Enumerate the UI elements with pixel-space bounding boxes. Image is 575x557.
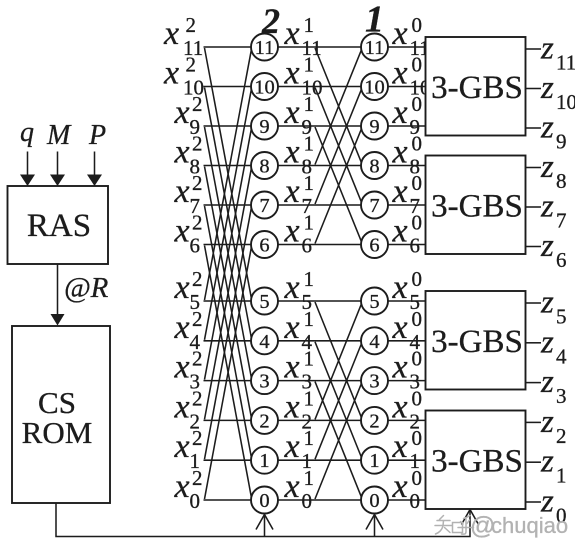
wire x2_0 to stage-2 node 6 (cross)	[205, 248, 252, 499]
svg-text:P: P	[88, 120, 106, 151]
wire x2_9 to stage-2 node 3 (cross)	[205, 127, 252, 377]
wire stage-1 node 2 to 3-GBS input	[388, 419, 426, 421]
svg-text:1: 1	[304, 426, 315, 450]
svg-text:1: 1	[304, 132, 315, 156]
wire x2_3 input to stage-2 node 3	[204, 380, 252, 382]
svg-text:2: 2	[192, 171, 203, 195]
stage-2 node 7	[251, 192, 278, 219]
svg-text:chuqiao: chuqiao	[491, 513, 568, 538]
svg-text:11: 11	[556, 51, 575, 75]
block 3-GBS U1	[426, 37, 526, 136]
wire x2_2 input to stage-2 node 2	[204, 419, 252, 421]
wire x2_8 to stage-2 node 2 (cross)	[205, 167, 252, 418]
stage-1 node 7	[361, 192, 388, 219]
svg-text:5: 5	[259, 291, 269, 313]
wire x1_3 to stage-1 node 0 (cross)	[315, 382, 361, 497]
watermark	[435, 516, 474, 535]
block CS ROM	[12, 326, 110, 503]
svg-text:2: 2	[192, 92, 203, 116]
svg-text:10: 10	[254, 77, 275, 99]
wire x2_5 input to stage-2 node 5	[204, 300, 252, 302]
svg-text:x: x	[392, 173, 408, 210]
wire stage-1 node 9 to 3-GBS input	[388, 125, 426, 127]
svg-text:7: 7	[556, 209, 567, 233]
svg-text:6: 6	[190, 234, 201, 258]
svg-text:z: z	[540, 70, 554, 106]
wire stage-1 node 1 to 3-GBS input	[388, 459, 426, 461]
wire x2_10 input to stage-2 node 10	[204, 86, 252, 88]
svg-text:1: 1	[304, 13, 315, 37]
svg-text:0: 0	[412, 466, 423, 490]
stage-1 node 10	[361, 73, 388, 100]
svg-text:8: 8	[259, 156, 269, 178]
wire x2_3 to stage-2 node 9 (cross)	[205, 129, 252, 379]
stage-1 node 4	[361, 327, 388, 354]
svg-text:2: 2	[192, 211, 203, 235]
svg-text:x: x	[284, 134, 300, 171]
stage-1 node 2	[361, 407, 388, 434]
svg-text:z: z	[540, 364, 554, 400]
block 3-GBS U4	[426, 411, 526, 510]
wire arrow into 3-GBS U4	[462, 510, 479, 525]
svg-text:1: 1	[304, 347, 315, 371]
wire x1_8 to stage-1 node 11 (cross)	[315, 50, 361, 164]
svg-text:x: x	[284, 468, 300, 505]
wire CS ROM output bus	[56, 503, 470, 537]
stage-2 node 0	[251, 487, 278, 514]
wire z11 output	[526, 48, 542, 50]
svg-text:1: 1	[556, 464, 567, 488]
svg-text:x: x	[174, 94, 190, 131]
wire stage-2 node 0 to stage-1 node 0	[278, 499, 361, 501]
svg-text:0: 0	[302, 489, 313, 513]
svg-text:3: 3	[259, 371, 269, 393]
wire stage-2 node 4 to stage-1 node 4	[278, 340, 361, 342]
svg-text:3-GBS: 3-GBS	[431, 324, 523, 360]
svg-text:x: x	[392, 388, 408, 425]
svg-text:5: 5	[556, 305, 567, 329]
svg-text:1: 1	[304, 211, 315, 235]
svg-text:x: x	[284, 309, 300, 346]
svg-text:2: 2	[192, 386, 203, 410]
svg-text:0: 0	[412, 53, 423, 77]
svg-text:2: 2	[192, 307, 203, 331]
wire RAS to CS ROM	[57, 264, 59, 315]
svg-text:3-GBS: 3-GBS	[431, 188, 523, 224]
block 3-GBS U3	[426, 291, 526, 390]
wire stage-1 node 0 to 3-GBS input	[388, 499, 426, 501]
wire x2_5 to stage-2 node 11 (cross)	[205, 50, 252, 300]
wire stage-2 node 2 to stage-1 node 2	[278, 419, 361, 421]
svg-text:4: 4	[369, 331, 379, 353]
svg-text:x: x	[284, 428, 300, 465]
svg-text:x: x	[174, 388, 190, 425]
wire x1_5 to stage-1 node 2 (cross)	[315, 302, 361, 417]
svg-text:7: 7	[369, 195, 379, 217]
wire z6 output	[526, 246, 542, 248]
svg-text:0: 0	[412, 171, 423, 195]
wire z10 output	[526, 88, 542, 90]
stage-1 node 5	[361, 288, 388, 315]
svg-text:x: x	[174, 213, 190, 250]
svg-text:4: 4	[556, 344, 567, 368]
svg-text:x: x	[174, 468, 190, 505]
svg-text:x: x	[284, 94, 300, 131]
wire x1_10 to stage-1 node 7 (cross)	[315, 88, 361, 202]
svg-text:x: x	[284, 388, 300, 425]
stage-2 node 10	[251, 73, 278, 100]
svg-text:z: z	[540, 149, 554, 185]
svg-text:z: z	[540, 110, 554, 146]
svg-text:1: 1	[259, 450, 269, 472]
svg-text:0: 0	[412, 347, 423, 371]
block RAS	[8, 186, 109, 264]
stage-2 node 8	[251, 152, 278, 179]
svg-text:z: z	[540, 189, 554, 225]
svg-text:9: 9	[556, 130, 567, 154]
wire z3 output	[526, 382, 542, 384]
svg-text:M: M	[46, 120, 72, 151]
svg-text:10: 10	[364, 77, 385, 99]
wire stage-1 node 10 to 3-GBS input	[388, 86, 426, 88]
wire arrow into stage-1 node 0	[374, 515, 376, 537]
svg-text:0: 0	[412, 132, 423, 156]
stage-1 node 6	[361, 231, 388, 258]
svg-text:z: z	[540, 285, 554, 321]
svg-text:2: 2	[186, 53, 197, 77]
svg-text:q: q	[20, 117, 34, 148]
wire stage-1 node 6 to 3-GBS input	[388, 244, 426, 246]
svg-text:6: 6	[302, 234, 313, 258]
svg-text:0: 0	[412, 426, 423, 450]
wire stage-2 node 5 to stage-1 node 5	[278, 300, 361, 302]
svg-text:ROM: ROM	[22, 415, 93, 450]
svg-text:0: 0	[190, 489, 201, 513]
svg-text:1: 1	[304, 466, 315, 490]
wire x2_10 to stage-2 node 4 (cross)	[205, 88, 252, 338]
wire x2_1 to stage-2 node 7 (cross)	[205, 208, 252, 459]
svg-text:0: 0	[412, 13, 423, 37]
svg-text:x: x	[284, 269, 300, 306]
wire x1_9 to stage-1 node 6 (cross)	[315, 127, 361, 241]
svg-text:z: z	[540, 228, 554, 264]
svg-text:1: 1	[304, 307, 315, 331]
svg-text:2: 2	[192, 132, 203, 156]
wire x1_0 to stage-1 node 3 (cross)	[315, 384, 361, 499]
svg-text:1: 1	[304, 267, 315, 291]
wire x1_6 to stage-1 node 9 (cross)	[315, 129, 361, 243]
wire x2_8 input to stage-2 node 8	[204, 165, 252, 167]
wire x2_7 input to stage-2 node 7	[204, 204, 252, 206]
wire x2_6 to stage-2 node 0 (cross)	[205, 246, 252, 497]
svg-text:8: 8	[556, 169, 567, 193]
wire x2_6 input to stage-2 node 6	[204, 244, 252, 246]
wire stage-2 node 7 to stage-1 node 7	[278, 204, 361, 206]
wire x1_2 to stage-1 node 5 (cross)	[315, 304, 361, 419]
svg-text:x: x	[284, 55, 300, 92]
stage-1 node 11	[361, 34, 388, 61]
wire stage-2 node 8 to stage-1 node 8	[278, 165, 361, 167]
svg-text:2: 2	[192, 466, 203, 490]
svg-text:4: 4	[259, 331, 269, 353]
svg-text:2: 2	[556, 424, 567, 448]
svg-text:x: x	[284, 349, 300, 386]
svg-text:x: x	[174, 173, 190, 210]
wire P input arrow	[94, 152, 96, 176]
svg-text:z: z	[540, 31, 554, 67]
wire x2_1 input to stage-2 node 1	[204, 459, 252, 461]
wire stage-2 node 11 to stage-1 node 11	[278, 46, 361, 48]
wire x1_11 to stage-1 node 8 (cross)	[315, 48, 361, 162]
wire z7 output	[526, 206, 542, 208]
svg-text:2: 2	[186, 13, 197, 37]
svg-text:1: 1	[369, 450, 379, 472]
svg-text:x: x	[174, 269, 190, 306]
svg-text:x: x	[392, 55, 408, 92]
wire x2_4 input to stage-2 node 4	[204, 340, 252, 342]
wire x2_4 to stage-2 node 10 (cross)	[205, 90, 252, 340]
wire stage-2 node 3 to stage-1 node 3	[278, 380, 361, 382]
svg-text:0: 0	[259, 490, 269, 512]
wire z0 output	[526, 501, 542, 503]
svg-text:8: 8	[369, 156, 379, 178]
svg-text:x: x	[174, 349, 190, 386]
wire z5 output	[526, 302, 542, 304]
svg-text:5: 5	[369, 291, 379, 313]
wire x2_11 to stage-2 node 5 (cross)	[205, 48, 252, 298]
svg-text:2: 2	[369, 410, 379, 432]
stage-2 node 11	[251, 34, 278, 61]
svg-text:x: x	[392, 213, 408, 250]
svg-text:@R: @R	[64, 272, 109, 304]
svg-text:11: 11	[255, 37, 275, 59]
svg-text:0: 0	[412, 386, 423, 410]
svg-text:3-GBS: 3-GBS	[431, 70, 523, 106]
wire x2_9 input to stage-2 node 9	[204, 125, 252, 127]
svg-text:x: x	[392, 349, 408, 386]
wire x2_7 to stage-2 node 1 (cross)	[205, 206, 252, 457]
wire z2 output	[526, 421, 542, 423]
wire stage-1 node 11 to 3-GBS input	[388, 46, 426, 48]
stage-1 node 8	[361, 152, 388, 179]
svg-text:x: x	[284, 213, 300, 250]
svg-text:x: x	[392, 269, 408, 306]
wire stage-2 node 10 to stage-1 node 10	[278, 86, 361, 88]
wire z9 output	[526, 127, 542, 129]
wire x2_2 to stage-2 node 8 (cross)	[205, 169, 252, 420]
svg-text:0: 0	[412, 92, 423, 116]
svg-text:6: 6	[410, 234, 421, 258]
wire stage-1 node 3 to 3-GBS input	[388, 380, 426, 382]
svg-text:3: 3	[369, 371, 379, 393]
svg-text:1: 1	[304, 53, 315, 77]
svg-text:2: 2	[192, 426, 203, 450]
wire stage-1 node 4 to 3-GBS input	[388, 340, 426, 342]
stage-1 node 9	[361, 113, 388, 140]
wire x2_11 input to stage-2 node 11	[204, 46, 252, 48]
stage-2 node 3	[251, 367, 278, 394]
wire stage-1 node 7 to 3-GBS input	[388, 204, 426, 206]
svg-text:6: 6	[556, 248, 567, 272]
svg-text:x: x	[163, 55, 179, 92]
wire stage-2 node 1 to stage-1 node 1	[278, 459, 361, 461]
svg-text:6: 6	[259, 235, 269, 257]
stage-2 node 4	[251, 327, 278, 354]
block 3-GBS U2	[426, 156, 526, 255]
svg-text:0: 0	[410, 489, 421, 513]
svg-text:1: 1	[304, 386, 315, 410]
svg-text:9: 9	[369, 116, 379, 138]
svg-text:2: 2	[192, 347, 203, 371]
wire stage-2 node 9 to stage-1 node 9	[278, 125, 361, 127]
wire M input arrow	[57, 152, 59, 176]
svg-text:z: z	[540, 404, 554, 440]
wire z1 output	[526, 461, 542, 463]
svg-text:x: x	[174, 309, 190, 346]
svg-text:x: x	[163, 15, 179, 52]
wire arrow into stage-2 node 0	[264, 515, 266, 537]
svg-text:3-GBS: 3-GBS	[431, 443, 523, 479]
wire z4 output	[526, 342, 542, 344]
svg-text:x: x	[392, 428, 408, 465]
svg-text:x: x	[174, 428, 190, 465]
stage-2 node 1	[251, 447, 278, 474]
svg-text:x: x	[392, 309, 408, 346]
svg-text:6: 6	[369, 235, 379, 257]
svg-text:0: 0	[369, 490, 379, 512]
svg-text:0: 0	[412, 307, 423, 331]
svg-text:0: 0	[412, 267, 423, 291]
svg-text:1: 1	[304, 171, 315, 195]
svg-text:z: z	[540, 324, 554, 360]
svg-text:1: 1	[304, 92, 315, 116]
svg-text:7: 7	[259, 195, 269, 217]
wire q input arrow	[27, 152, 29, 176]
stage-2 node 6	[251, 231, 278, 258]
stage-1 node 1	[361, 447, 388, 474]
wire x1_7 to stage-1 node 10 (cross)	[315, 90, 361, 204]
wire stage-1 node 5 to 3-GBS input	[388, 300, 426, 302]
svg-text:x: x	[392, 94, 408, 131]
stage-1 node 3	[361, 367, 388, 394]
stage-2 node 9	[251, 113, 278, 140]
svg-text:x: x	[392, 134, 408, 171]
svg-text:z: z	[540, 444, 554, 480]
svg-text:0: 0	[412, 211, 423, 235]
svg-text:10: 10	[556, 90, 575, 114]
stage-1 node 0	[361, 487, 388, 514]
svg-text:x: x	[284, 15, 300, 52]
svg-text:x: x	[392, 15, 408, 52]
wire x1_1 to stage-1 node 4 (cross)	[315, 344, 361, 459]
svg-text:x: x	[174, 134, 190, 171]
stage-2 node 2	[251, 407, 278, 434]
svg-text:11: 11	[365, 37, 385, 59]
wire x1_4 to stage-1 node 1 (cross)	[315, 342, 361, 457]
svg-text:3: 3	[556, 384, 567, 408]
svg-text:x: x	[392, 468, 408, 505]
wire stage-1 node 8 to 3-GBS input	[388, 165, 426, 167]
svg-text:x: x	[284, 173, 300, 210]
wire x2_0 input to stage-2 node 0	[204, 499, 252, 501]
stage-2 node 5	[251, 288, 278, 315]
svg-text:RAS: RAS	[27, 208, 91, 244]
wire z8 output	[526, 167, 542, 169]
svg-text:2: 2	[259, 410, 269, 432]
svg-text:2: 2	[192, 267, 203, 291]
svg-text:9: 9	[259, 116, 269, 138]
wire stage-2 node 6 to stage-1 node 6	[278, 244, 361, 246]
